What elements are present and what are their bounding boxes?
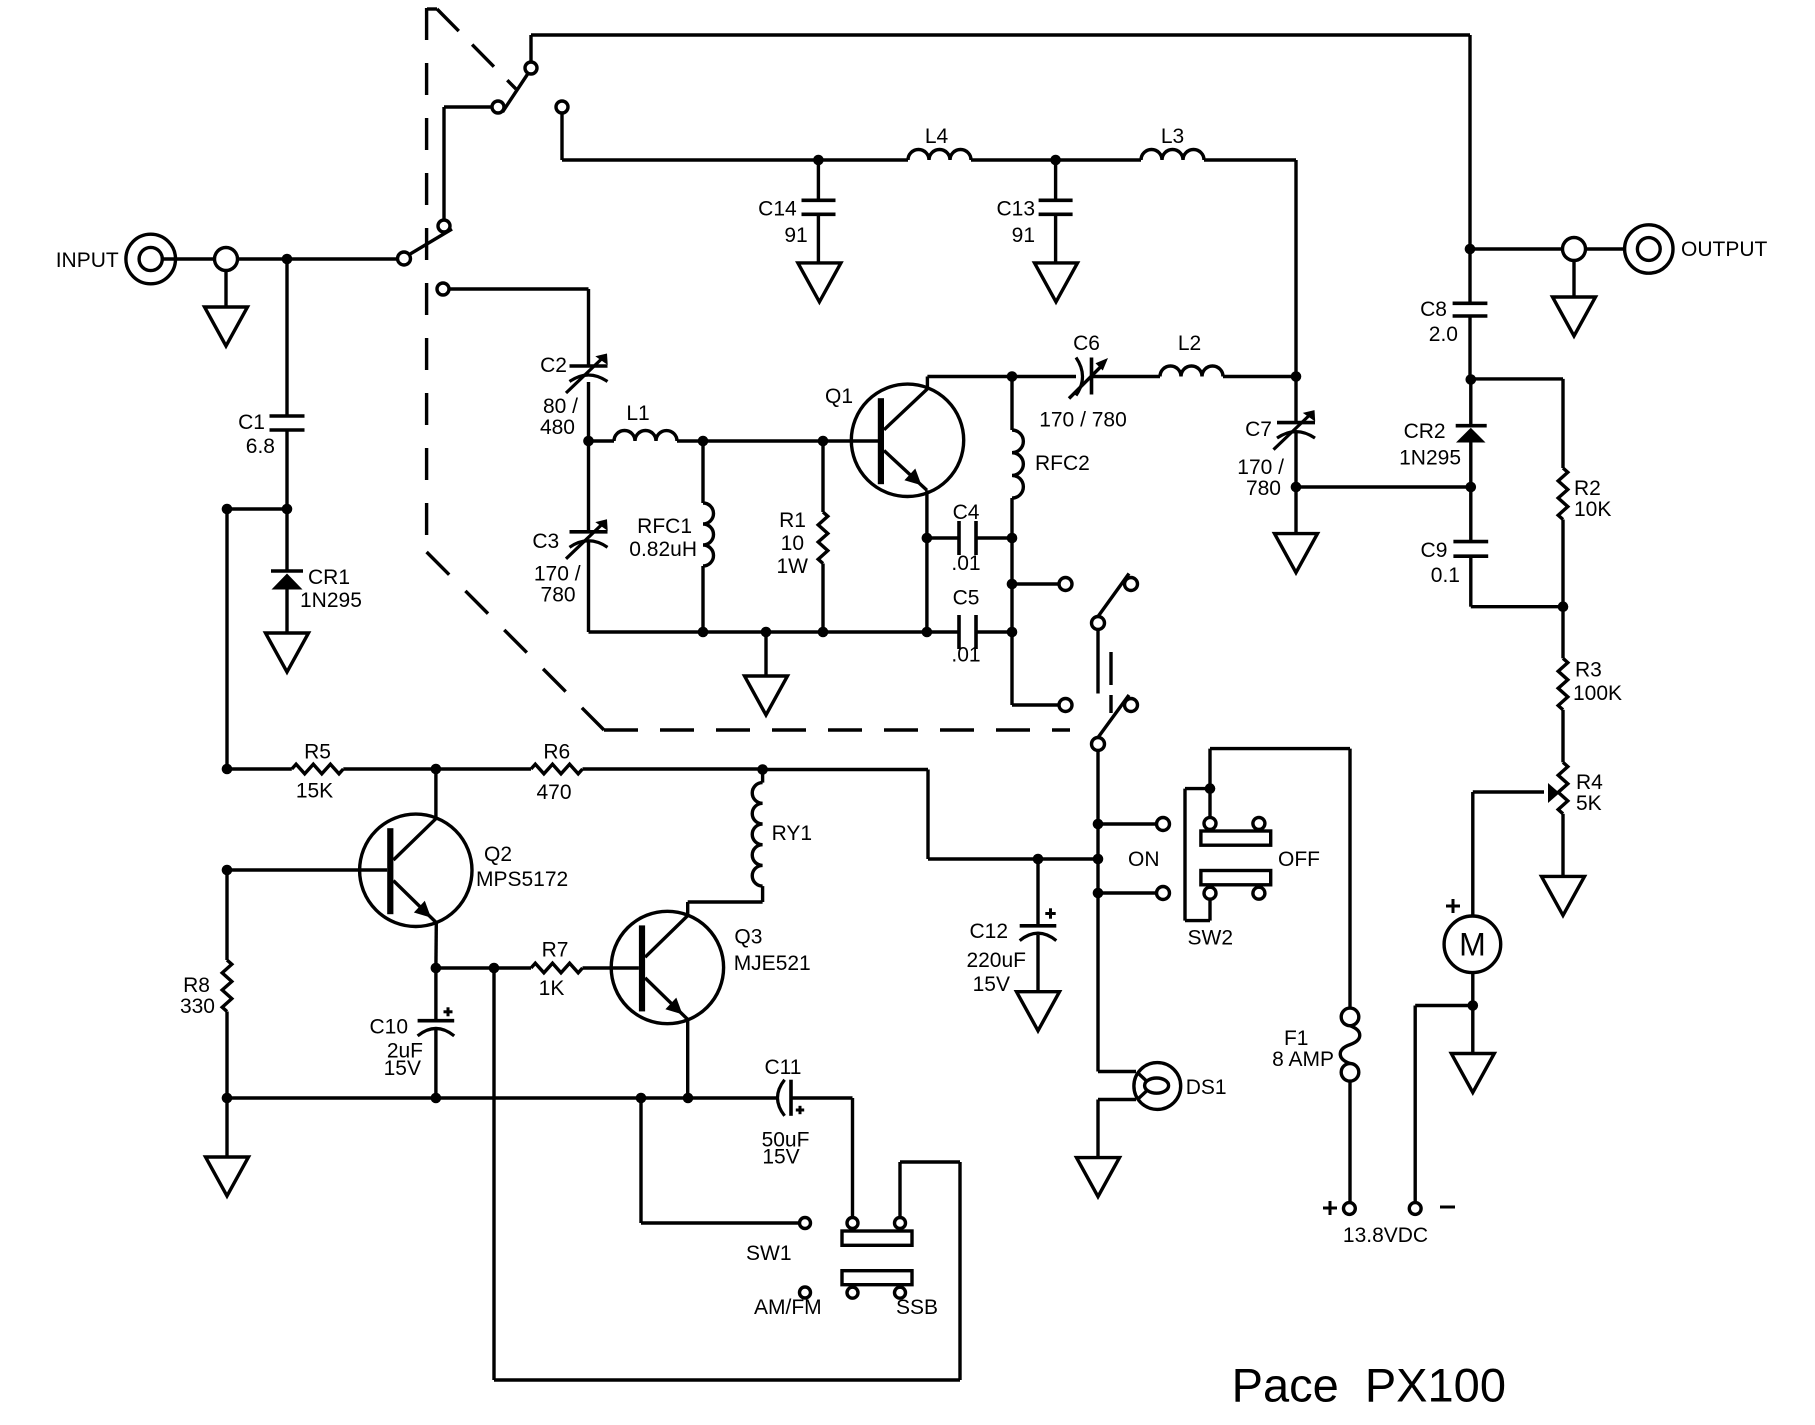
wire node to R2 top — [1471, 377, 1563, 380]
node SW1 feed — [489, 963, 500, 974]
ground at input feedthrough — [224, 271, 227, 308]
svg-text:100K: 100K — [1573, 682, 1622, 705]
inductor L1 — [614, 431, 677, 442]
ground below CR1 — [266, 633, 309, 672]
svg-text:5K: 5K — [1576, 792, 1602, 815]
label plus at battery — [1323, 1207, 1337, 1210]
svg-text:R5: R5 — [304, 741, 331, 764]
svg-text:R2: R2 — [1574, 477, 1601, 500]
wire ground rail — [227, 1096, 778, 1099]
svg-text:L1: L1 — [626, 402, 649, 425]
potentiometer R4 5K — [1473, 762, 1568, 814]
svg-text:Q3: Q3 — [734, 925, 762, 948]
svg-text:0.1: 0.1 — [1431, 564, 1460, 587]
switch contact top — [525, 62, 537, 74]
wire C2 to L1 node — [587, 382, 590, 441]
switch contact osc upper left — [1059, 578, 1072, 591]
terminal plus 13.8VDC — [1344, 1203, 1356, 1215]
svg-text:C8: C8 — [1420, 298, 1447, 321]
node RFC2/C5 — [1007, 627, 1018, 638]
svg-text:CR2: CR2 — [1404, 420, 1446, 443]
node R1 bottom — [818, 627, 829, 638]
lamp DS1 — [1134, 1063, 1181, 1110]
svg-text:330: 330 — [180, 995, 215, 1018]
wire SW2 feed down — [1208, 749, 1211, 817]
node ON lower — [1093, 888, 1104, 899]
svg-text:Q2: Q2 — [484, 843, 512, 866]
shield dashed diagonal top — [437, 9, 516, 89]
wire emitter node to R7 — [436, 966, 531, 969]
wire detector node right — [1296, 485, 1471, 488]
node C10 bottom rail — [431, 1093, 442, 1104]
node C12 feed — [1093, 854, 1104, 865]
svg-text:MPS5172: MPS5172 — [476, 868, 568, 891]
svg-text:RFC2: RFC2 — [1035, 452, 1090, 475]
switch contact ON lower — [1157, 887, 1170, 900]
node CR2/C9 — [1466, 482, 1477, 493]
switch contact input pole — [398, 252, 411, 265]
shield dashed horizontal bottom — [604, 728, 1070, 731]
switch SW1 upper bar — [842, 1231, 912, 1245]
node C8/CR2 — [1466, 374, 1477, 385]
inductor RFC1 0.82uH — [703, 441, 714, 632]
diode CR2 1N295 — [1456, 380, 1487, 488]
node RFC2/C4 — [1007, 533, 1018, 544]
wire to switch contact upper — [1012, 582, 1059, 585]
svg-text:RFC1: RFC1 — [637, 515, 692, 538]
wire meter node to minus terminal — [1415, 1004, 1473, 1007]
wire input junction down to C1 — [285, 259, 288, 416]
ground at output feedthrough — [1572, 261, 1575, 298]
svg-text:R4: R4 — [1576, 771, 1603, 794]
svg-text:SW2: SW2 — [1188, 927, 1234, 950]
ground below R4 — [1561, 814, 1564, 877]
svg-text:.01: .01 — [951, 644, 980, 667]
switch contact mode upper right — [1125, 578, 1138, 591]
wire lamp bottom to ground — [1098, 1098, 1136, 1101]
node output junction — [1465, 244, 1476, 255]
node R2/R3 — [1558, 601, 1569, 612]
switch arm input relay — [410, 229, 452, 254]
wire node to L1 — [589, 439, 615, 442]
switch SW1 lower bar — [842, 1271, 912, 1285]
svg-text:OFF: OFF — [1278, 848, 1320, 871]
label plus at C12 — [1045, 912, 1055, 915]
svg-text:C11: C11 — [765, 1056, 802, 1079]
wire to lamp DS1 — [1098, 1070, 1136, 1073]
svg-text:SW1: SW1 — [746, 1242, 792, 1265]
svg-text:INPUT: INPUT — [56, 249, 119, 272]
switch contact L4 feed — [556, 101, 568, 113]
node R1 top — [818, 436, 829, 447]
svg-text:170 /: 170 / — [1237, 456, 1284, 479]
ground below DS1 — [1077, 1158, 1120, 1197]
wire input jack to feedthrough — [162, 257, 214, 260]
wire contact to C2 branch — [449, 287, 589, 290]
svg-text:91: 91 — [784, 224, 807, 247]
ground below left rail — [225, 1098, 228, 1157]
capacitor C9 0.1 — [1453, 487, 1488, 607]
svg-text:C5: C5 — [953, 587, 980, 610]
resistor R1 10 1W — [818, 441, 828, 632]
wire fuse to plus terminal — [1348, 1081, 1351, 1203]
wire contact up and left — [442, 107, 445, 220]
wire contact down to filter rail — [560, 113, 563, 160]
resistor R5 15K — [227, 764, 436, 774]
svg-text:C6: C6 — [1073, 332, 1100, 355]
svg-text:C12: C12 — [969, 920, 1008, 943]
switch contact upper throw — [438, 220, 450, 232]
svg-text:470: 470 — [536, 781, 571, 804]
feedthrough terminal at input — [215, 248, 238, 271]
svg-text:15V: 15V — [973, 973, 1010, 996]
svg-text:ON: ON — [1128, 848, 1160, 871]
capacitor C14 — [802, 160, 836, 263]
ground below C12 — [1017, 992, 1060, 1031]
node RFC2 top — [1007, 371, 1018, 382]
svg-text:10K: 10K — [1574, 498, 1611, 521]
node ground stem rail — [761, 627, 772, 638]
switch SW2 contact top-left — [1204, 817, 1216, 829]
connector J2 OUTPUT jack — [1625, 225, 1673, 273]
wire C3 to bottom rail — [587, 542, 590, 632]
svg-text:MJE521: MJE521 — [734, 952, 811, 975]
label plus at C10 — [444, 1010, 453, 1013]
resistor R7 1K — [531, 963, 639, 973]
wire C7 to detector node — [1294, 433, 1297, 487]
svg-text:C2: C2 — [540, 354, 567, 377]
svg-text:15V: 15V — [384, 1057, 421, 1080]
svg-text:R8: R8 — [183, 974, 210, 997]
wire L3 to C7 branch corner — [1204, 158, 1296, 161]
svg-text:L2: L2 — [1178, 332, 1201, 355]
ground below C14 — [798, 263, 841, 302]
switch SW mode lower pole — [1092, 738, 1105, 751]
svg-text:780: 780 — [1246, 477, 1281, 500]
node RFC1 bottom — [698, 627, 709, 638]
ground below C13 — [1035, 263, 1078, 302]
node base rail — [222, 865, 233, 876]
relay coil RY1 — [752, 770, 762, 903]
node input junction — [282, 254, 293, 265]
node RFC1 top — [698, 436, 709, 447]
svg-text:CR1: CR1 — [308, 566, 350, 589]
label minus sign — [1440, 1206, 1455, 1209]
capacitor C5 .01 — [959, 615, 1012, 649]
wire C7 node down to plate — [1294, 377, 1297, 423]
capacitor C12 220uF 15V — [1020, 859, 1057, 992]
switch SW1 contact lower-left — [800, 1287, 811, 1298]
wire Q1 emitter down — [925, 490, 928, 632]
svg-text:RY1: RY1 — [772, 822, 812, 845]
node C1/CR1 junction — [282, 504, 293, 515]
wire lower pole down to ON node — [1096, 751, 1099, 1072]
svg-text:1N295: 1N295 — [1399, 447, 1461, 470]
svg-text:M: M — [1459, 927, 1486, 963]
svg-text:15K: 15K — [296, 780, 333, 803]
node Q3 emitter rail — [683, 1093, 694, 1104]
switch SW1 contact upper-left — [800, 1218, 811, 1229]
wire L4 to C13 — [971, 158, 1141, 161]
svg-text:Q1: Q1 — [825, 385, 853, 408]
wire oscillator bottom rail — [589, 630, 960, 633]
ground below C7 — [1294, 487, 1297, 534]
wire to ON contact lower — [1098, 891, 1157, 894]
wire R4 wiper down to meter — [1471, 792, 1474, 916]
terminal minus 13.8VDC — [1409, 1203, 1421, 1215]
node RY1 top — [757, 764, 768, 775]
switch SW1 contact upper-mid — [847, 1218, 858, 1229]
svg-text:0.82uH: 0.82uH — [629, 538, 697, 561]
svg-text:C3: C3 — [532, 530, 559, 553]
switch arm mode lower — [1098, 695, 1129, 738]
switch SW1 contact lower-mid — [847, 1287, 858, 1298]
svg-text:10: 10 — [781, 532, 804, 555]
node C14 junction — [813, 155, 824, 166]
wire upper pole down — [1096, 630, 1099, 694]
fuse F1 8 AMP — [1340, 1008, 1360, 1081]
wire SW2 bracket — [1185, 787, 1210, 790]
inductor L4 — [908, 150, 971, 161]
capacitor C1 — [270, 416, 305, 430]
node RFC2 switch tap upper — [1007, 579, 1018, 590]
svg-text:F1: F1 — [1284, 1027, 1309, 1050]
svg-text:1W: 1W — [777, 555, 809, 578]
node L1/C3 junction — [583, 436, 594, 447]
svg-text:1K: 1K — [539, 977, 565, 1000]
wire Q3 collector to RY1 — [688, 900, 763, 903]
switch contact mode lower right — [1125, 699, 1138, 712]
node ON upper — [1093, 819, 1104, 830]
svg-text:2.0: 2.0 — [1429, 323, 1458, 346]
wire Q2 base — [227, 868, 387, 871]
switch SW2 upper bar — [1201, 831, 1271, 845]
wire rail tap to SW1 left contact — [639, 1098, 642, 1223]
node R5/R6/Q2 collector — [431, 764, 442, 775]
node C7 bottom — [1291, 482, 1302, 493]
capacitor C13 — [1039, 160, 1073, 263]
wire meter to ground node — [1471, 973, 1474, 1006]
wire feedthrough to switch contact — [238, 257, 398, 260]
switch SW1 contact lower-right — [895, 1287, 906, 1298]
svg-text:15V: 15V — [762, 1146, 799, 1169]
svg-text:91: 91 — [1012, 224, 1035, 247]
switch SW2 lower bar — [1201, 871, 1271, 885]
capacitor C4 .01 — [927, 521, 1012, 555]
svg-text:170 /: 170 / — [534, 563, 581, 586]
wire top bypass rail — [531, 33, 1470, 36]
node meter minus — [1468, 1000, 1479, 1011]
variable capacitor C3 — [570, 530, 608, 534]
wire C11 to SW1 contact — [851, 1098, 854, 1218]
svg-text:L4: L4 — [925, 125, 949, 148]
variable capacitor C7 — [1277, 421, 1315, 425]
node SW2 top — [1205, 783, 1216, 794]
svg-text:13.8VDC: 13.8VDC — [1343, 1224, 1428, 1247]
switch SW2 contact bottom-left — [1204, 887, 1216, 899]
feedthrough terminal at output — [1563, 238, 1586, 261]
node C13 junction — [1050, 155, 1061, 166]
ground below meter — [1471, 1006, 1474, 1054]
wire L2 to C7 node — [1223, 375, 1296, 378]
ground below oscillator rail — [764, 632, 767, 676]
svg-text:L3: L3 — [1161, 125, 1184, 148]
variable capacitor C6 — [1012, 358, 1160, 399]
capacitor C11 50uF 15V — [778, 1080, 853, 1116]
resistor R3 100K — [1558, 607, 1568, 763]
node C12 top — [1033, 854, 1044, 865]
svg-text:C9: C9 — [1421, 539, 1448, 562]
node emitter/C5 rail — [922, 627, 933, 638]
wire to ON contact upper — [1098, 822, 1157, 825]
wire output node to feedthrough — [1470, 247, 1563, 250]
svg-text:C14: C14 — [758, 198, 797, 221]
shield dashed diagonal lower — [427, 552, 604, 730]
switch SW2 contact top-right — [1253, 817, 1265, 829]
svg-text:SSB: SSB — [896, 1296, 938, 1319]
svg-text:780: 780 — [541, 584, 576, 607]
svg-text:C13: C13 — [996, 198, 1035, 221]
wire RFC2 bottom to switch contact lower — [1012, 703, 1059, 706]
switch contact osc lower left — [1059, 699, 1072, 712]
shield dashed vertical left — [425, 8, 428, 552]
capacitor C8 2.0 — [1453, 249, 1488, 380]
svg-text:80 /: 80 / — [543, 395, 578, 418]
svg-text:1N295: 1N295 — [300, 589, 362, 612]
node R5 left — [222, 764, 233, 775]
switch contact bypass pole — [492, 101, 504, 113]
svg-text:C10: C10 — [369, 1016, 408, 1039]
switch contact ON upper — [1157, 818, 1170, 831]
shield enclosure dashed boundary top corner — [427, 7, 437, 10]
inductor L3 — [1141, 150, 1204, 161]
switch SW mode upper pole — [1092, 617, 1105, 630]
node ground rail left — [222, 1093, 233, 1104]
variable capacitor C2 — [570, 364, 608, 368]
node Q2 emitter / R7 / C10 — [431, 963, 442, 974]
svg-text:8 AMP: 8 AMP — [1272, 1048, 1334, 1071]
svg-text:Pace PX100: Pace PX100 — [1232, 1358, 1506, 1411]
label plus at meter — [1446, 905, 1460, 908]
wire feedthrough to output jack — [1586, 247, 1625, 250]
wire Q3 emitter down — [686, 1019, 689, 1098]
wire C9 bottom to R3 node — [1471, 605, 1563, 608]
switch arm mode upper — [1098, 574, 1129, 617]
svg-text:480: 480 — [540, 416, 575, 439]
ganged switch linkage dashed — [1109, 652, 1112, 713]
svg-text:C4: C4 — [953, 501, 980, 524]
svg-text:R6: R6 — [543, 741, 570, 764]
svg-text:R3: R3 — [1575, 659, 1602, 682]
transistor Q3 MJE521 — [611, 902, 723, 1024]
node emitter/C4 — [922, 533, 933, 544]
wire Q2 emitter down — [434, 923, 438, 968]
svg-text:R7: R7 — [542, 939, 569, 962]
svg-text:C1: C1 — [238, 411, 265, 434]
resistor R8 330 — [222, 870, 232, 1098]
wire top contact to top rail — [529, 35, 532, 62]
switch contact oscillator feed — [437, 283, 449, 295]
wire L1 node down to C3 — [587, 441, 590, 532]
resistor R6 470 — [436, 764, 763, 774]
meter M1 — [1444, 916, 1501, 973]
wire Q1 collector to C6 — [927, 375, 1012, 378]
svg-text:C7: C7 — [1245, 418, 1272, 441]
svg-text:R1: R1 — [779, 509, 806, 532]
wire L1 to Q1 base — [677, 439, 878, 442]
wire top rail down to output — [1468, 35, 1471, 249]
svg-text:6.8: 6.8 — [246, 435, 275, 458]
node C7 top — [1291, 371, 1302, 382]
svg-text:220uF: 220uF — [966, 949, 1026, 972]
resistor R2 10K — [1558, 468, 1568, 607]
svg-text:170 / 780: 170 / 780 — [1039, 409, 1127, 432]
switch SW2 contact bottom-right — [1253, 887, 1265, 899]
transistor Q1 — [851, 377, 963, 497]
wire C1 to CR1 node — [285, 430, 288, 509]
connector J1 INPUT jack — [126, 234, 176, 284]
node SW1 rail tap — [636, 1093, 647, 1104]
inductor L2 — [1160, 366, 1223, 377]
svg-text:OUTPUT: OUTPUT — [1681, 238, 1768, 261]
wire SW2 rail to fuse — [1210, 747, 1350, 750]
inductor RFC2 — [1012, 377, 1023, 706]
switch arm bypass relay — [503, 74, 529, 113]
svg-text:AM/FM: AM/FM — [754, 1296, 822, 1319]
capacitor C10 2uF 15V — [418, 968, 455, 1098]
transistor Q2 MPS5172 — [360, 769, 472, 927]
wire node to C12 and left rail — [928, 857, 1098, 860]
diode CR1 1N295 — [271, 509, 303, 633]
switch SW1 contact upper-right — [895, 1218, 906, 1229]
label plus at C11 — [796, 1109, 804, 1112]
svg-text:DS1: DS1 — [1186, 1076, 1227, 1099]
wire SW1 feed down and around — [492, 968, 495, 1380]
svg-text:.01: .01 — [951, 552, 980, 575]
wire junction left and down to R5 rail — [227, 507, 287, 510]
